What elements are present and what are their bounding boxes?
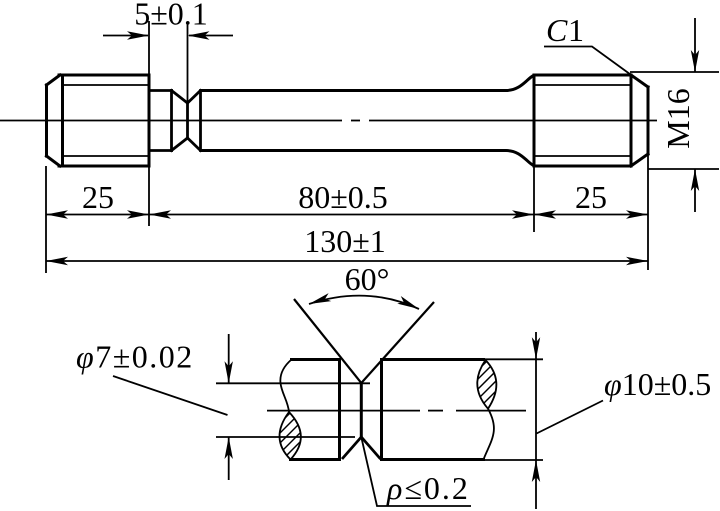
svg-text:φ7±0.02: φ7±0.02	[76, 339, 194, 375]
gauge shaft with fillets into right head	[201, 75, 535, 165]
arrow 25-left outer	[46, 210, 68, 218]
right flank	[361, 302, 434, 383]
leader to text	[537, 401, 604, 434]
thread minor diameter lines, left head	[63, 85, 150, 156]
groove lower-left flank	[172, 138, 188, 151]
notch waist	[360, 383, 363, 437]
extension line at head face	[148, 21, 150, 75]
dimension φ10±0.5	[484, 332, 604, 509]
dim line below	[228, 437, 230, 480]
chamfer vertical	[630, 75, 633, 166]
svg-text:25: 25	[82, 179, 114, 215]
left break lens	[280, 412, 301, 460]
groove left vertical	[170, 91, 173, 151]
chamfer bottom-right	[631, 154, 648, 166]
dim line above	[228, 334, 230, 383]
svg-text:C: C	[546, 12, 568, 48]
arrow 5-dim right	[188, 31, 210, 39]
svg-text:1: 1	[568, 12, 584, 48]
chamfer vertical	[61, 75, 64, 166]
left end face	[45, 85, 48, 156]
svg-text:60°: 60°	[345, 261, 390, 297]
left break line	[280, 360, 291, 413]
neck and V-groove	[149, 91, 201, 151]
extension line at waist	[187, 23, 189, 103]
centerline (dash-dot) of specimen	[0, 120, 657, 122]
chamfer top-right	[631, 75, 648, 87]
head right face	[148, 75, 151, 166]
arrow 25-right outer	[626, 210, 648, 218]
chamfer bottom-left	[47, 156, 61, 166]
bottom extension line	[216, 436, 355, 438]
dim line right tail	[189, 35, 233, 37]
arrows at x=534	[512, 210, 534, 218]
groove right vertical	[199, 91, 202, 151]
dimension line 25 / 80±0.5 / 25	[46, 214, 648, 216]
thread minor diameter lines, right head	[534, 85, 631, 156]
bottom extension line	[648, 168, 719, 170]
arrow 130 left	[46, 257, 68, 265]
dim line	[535, 332, 537, 509]
notch flanks (60° V)	[294, 299, 434, 383]
svg-text:M16: M16	[660, 88, 696, 148]
centerline (dash-dot) of detail	[267, 410, 526, 412]
neck bottom edge	[149, 149, 172, 152]
svg-text:130±1: 130±1	[304, 223, 386, 259]
neck top edge	[149, 89, 172, 92]
chamfer top-left	[47, 75, 61, 85]
right end face	[647, 87, 650, 154]
bottom V of notch	[342, 437, 381, 459]
arrow 60° right	[397, 296, 420, 313]
arrow φ10 bottom	[532, 460, 540, 482]
head bottom edge	[59, 165, 149, 168]
svg-text:25: 25	[575, 179, 607, 215]
top extension line	[216, 382, 370, 384]
right piece outline	[382, 360, 484, 460]
groove upper-right flank	[188, 91, 201, 104]
svg-text:5±0.1: 5±0.1	[134, 0, 208, 32]
right lens hatching	[468, 352, 506, 410]
arrow 60° left	[308, 293, 332, 308]
dim line above	[694, 18, 696, 72]
top extension line	[484, 358, 544, 360]
bottom extension line	[484, 459, 544, 461]
arrows at x=149	[127, 210, 149, 218]
svg-text:80±0.5: 80±0.5	[298, 179, 388, 215]
left piece outline	[291, 360, 340, 460]
groove upper-left flank	[172, 91, 188, 104]
groove lower-right flank	[188, 138, 201, 151]
dimension φ7±0.02	[113, 334, 370, 480]
groove waist	[186, 103, 189, 138]
arrow M16 bottom	[691, 169, 699, 191]
dimension line 130±1	[46, 260, 648, 262]
arrow φ7 bottom	[225, 437, 233, 459]
dimension M16	[630, 18, 719, 212]
dimension 60°	[309, 296, 419, 309]
dimension 5±0.1	[103, 21, 233, 103]
left lens hatching	[271, 404, 311, 467]
arrow φ7 top	[225, 361, 233, 383]
right break line	[484, 409, 494, 460]
head top edge	[59, 74, 149, 77]
note ρ≤0.2	[362, 438, 472, 506]
dim line left tail	[103, 35, 148, 37]
arrow 130 right	[626, 257, 648, 265]
top extension line	[630, 71, 719, 73]
arrow 5-dim left	[127, 31, 149, 39]
dim line below	[694, 169, 696, 212]
right threaded head outline	[534, 75, 648, 166]
left flank	[294, 299, 361, 383]
left shoulder	[338, 360, 341, 460]
right break lens	[477, 360, 496, 409]
leader from text	[113, 376, 228, 415]
right shoulder	[380, 360, 383, 460]
left threaded head outline	[47, 75, 150, 166]
arrow M16 top	[691, 50, 699, 72]
svg-text:ρ≤0.2: ρ≤0.2	[386, 470, 470, 506]
lower extension lines	[46, 154, 648, 273]
arrow φ10 top	[532, 337, 540, 359]
svg-text:φ10±0.5: φ10±0.5	[604, 366, 711, 402]
